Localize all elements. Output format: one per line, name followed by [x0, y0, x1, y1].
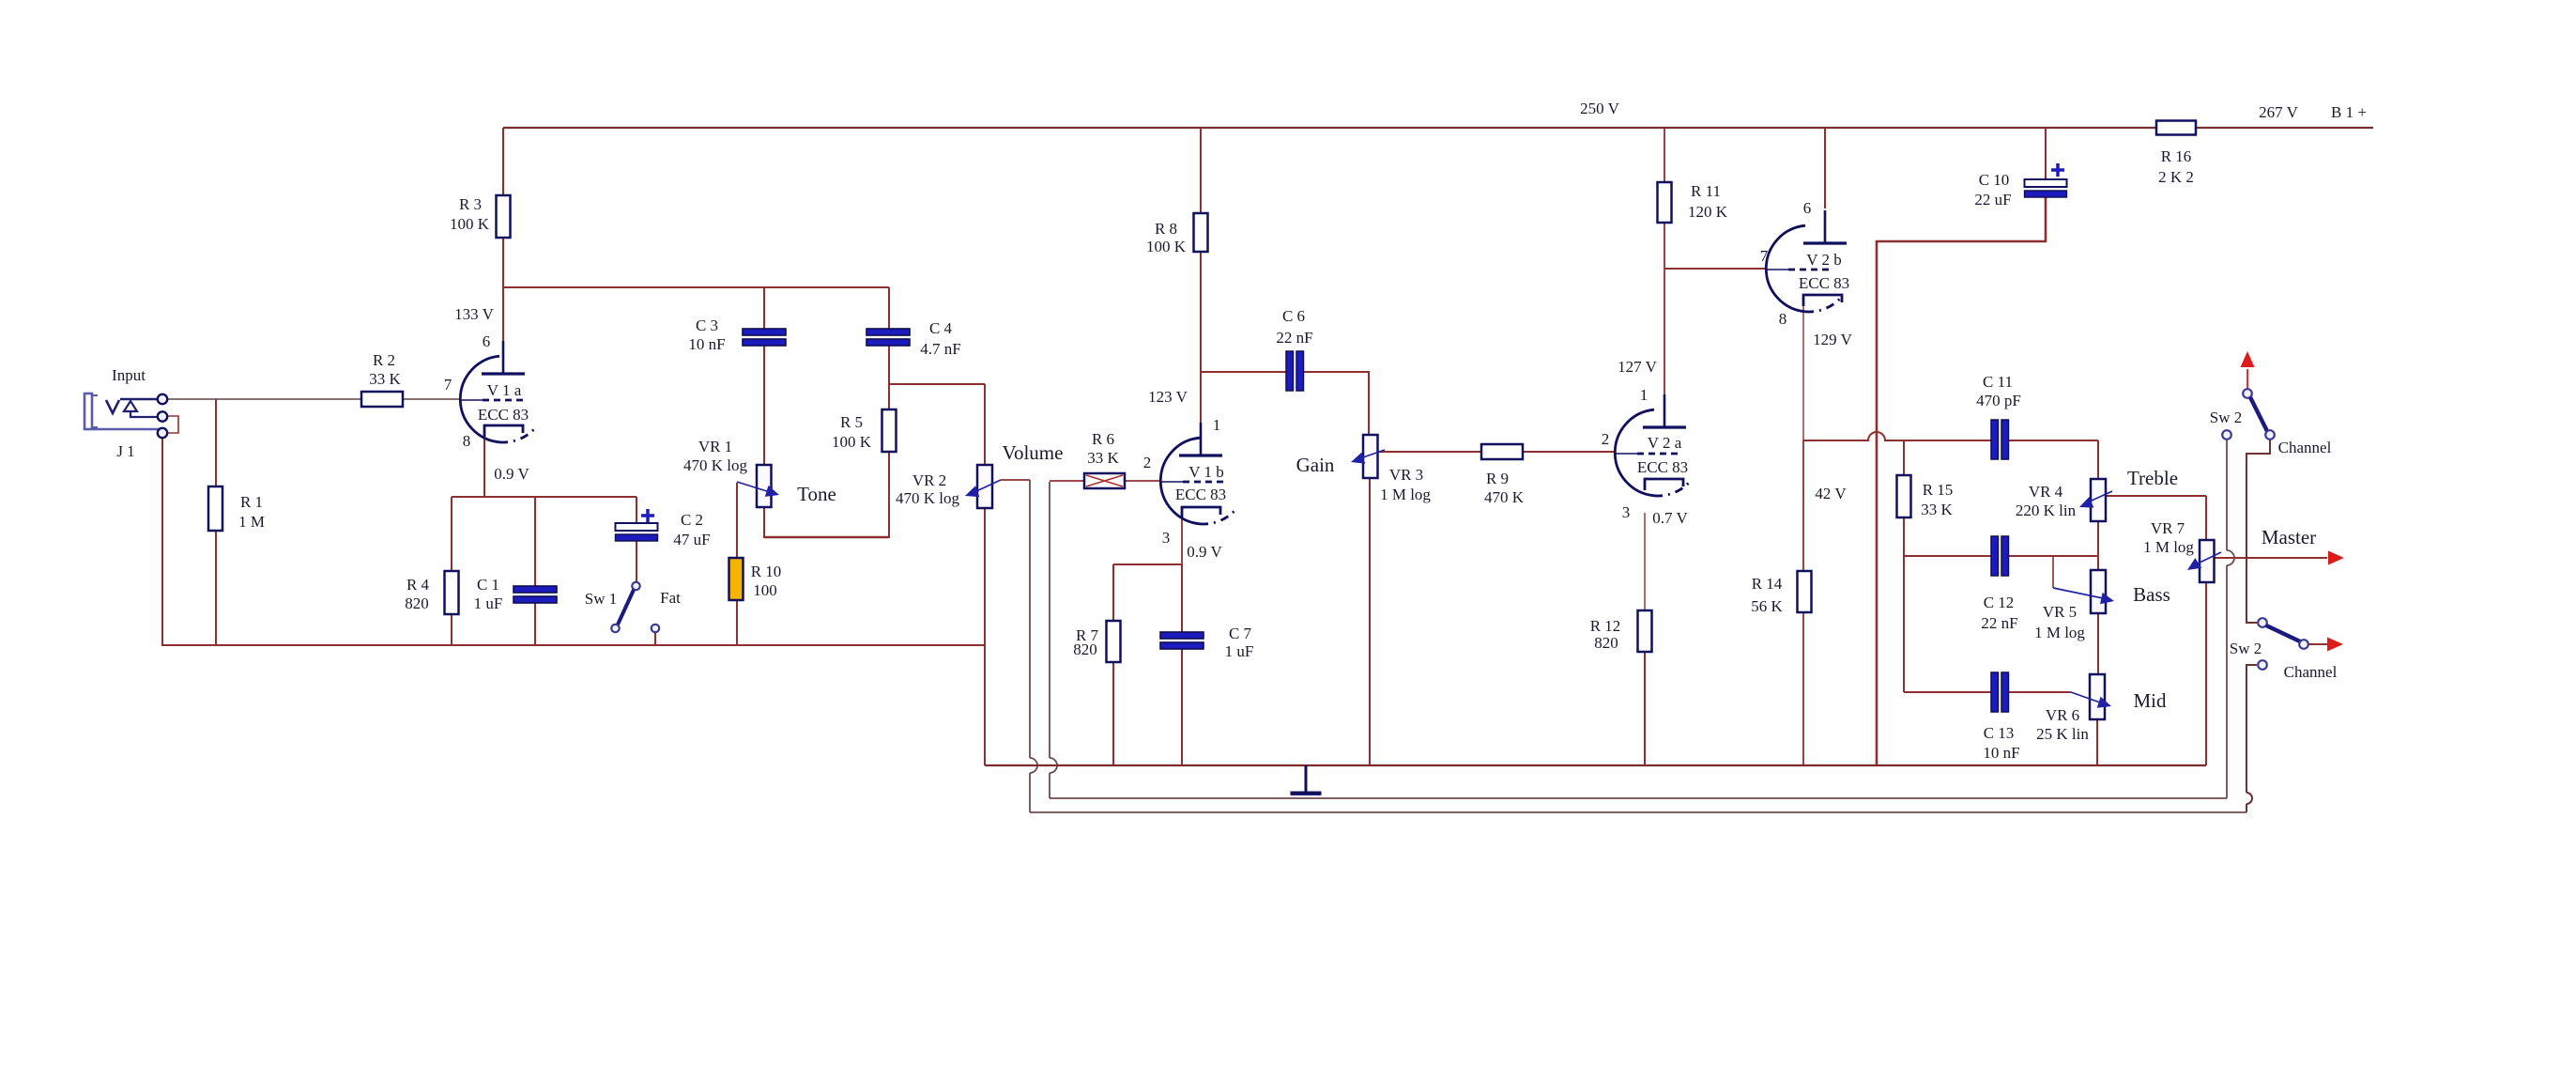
wire: volume wiper drop	[1029, 480, 1031, 758]
wire: VR7 bottom to bus	[2205, 581, 2207, 765]
arrow: master output	[2328, 551, 2344, 565]
svg-text:C 13: C 13	[1984, 724, 2015, 742]
resistor R8	[1194, 213, 1208, 252]
wire: cathode node rail	[452, 496, 636, 498]
terminal J1 tip	[158, 394, 167, 404]
svg-text:7: 7	[444, 376, 452, 394]
svg-text:C 10: C 10	[1979, 171, 2010, 189]
wire: R1 to ground rail	[215, 530, 217, 646]
svg-text:R 10: R 10	[751, 563, 782, 580]
svg-text:6: 6	[483, 332, 491, 350]
wire: left ground rail	[161, 644, 985, 646]
wire: 133V node to C3/C4 rail	[502, 286, 889, 288]
svg-text:100 K: 100 K	[832, 433, 872, 451]
svg-text:10 nF: 10 nF	[688, 335, 725, 353]
wire: bus3 volume-to-channel	[1030, 811, 2246, 813]
svg-text:Sw 1: Sw 1	[585, 590, 617, 608]
wire: rail down to R11	[1664, 128, 1665, 182]
svg-text:R 15: R 15	[1923, 481, 1954, 499]
svg-text:8: 8	[463, 432, 471, 450]
wire: junction down to R1	[215, 399, 217, 487]
wire: channel link upper to lower	[2246, 440, 2270, 623]
svg-text:470 K log: 470 K log	[683, 456, 748, 474]
svg-text:2 K 2: 2 K 2	[2158, 168, 2194, 186]
switch Sw2 upper pole	[2243, 389, 2252, 398]
svg-text:1: 1	[1640, 386, 1648, 404]
svg-text:VR 4: VR 4	[2029, 483, 2063, 501]
wire: node to C7	[1181, 564, 1183, 633]
resistor R4	[445, 571, 459, 614]
wire: R8 to 123V node	[1200, 251, 1202, 372]
svg-text:6: 6	[1803, 199, 1812, 217]
svg-text:250 V: 250 V	[1580, 100, 1619, 117]
svg-text:V 1 b: V 1 b	[1188, 463, 1223, 481]
wire: C1 to ground rail	[534, 600, 536, 646]
svg-text:VR 1: VR 1	[698, 438, 732, 455]
wire: R9 to V2a grid	[1522, 451, 1616, 453]
svg-text:1 M log: 1 M log	[2143, 538, 2194, 556]
polarity + C2	[641, 514, 654, 517]
svg-text:Master: Master	[2262, 526, 2316, 548]
capacitor C7	[1160, 632, 1204, 639]
potentiometer VR4	[2091, 479, 2106, 521]
svg-text:R 11: R 11	[1691, 182, 1721, 200]
svg-text:47 uF: 47 uF	[673, 531, 710, 548]
wire: 133V node to V1a anode	[502, 287, 504, 342]
wire: master output	[2214, 557, 2327, 559]
capacitor C3	[743, 329, 786, 335]
svg-text:R 3: R 3	[459, 195, 482, 213]
svg-text:R 9: R 9	[1486, 470, 1509, 487]
wire: VR3 wiper to R9	[1377, 451, 1481, 453]
svg-text:120 K: 120 K	[1688, 203, 1728, 221]
svg-text:100 K: 100 K	[1146, 238, 1187, 255]
potentiometer VR1	[757, 465, 772, 507]
wire: 123V node to V1b anode	[1200, 372, 1202, 440]
wire: R6 left drop	[1049, 482, 1050, 758]
wire: upper Sw2 pole drop	[2226, 440, 2228, 550]
svg-text:C 12: C 12	[1984, 594, 2015, 611]
wire: VR3 bottom to bus	[1369, 477, 1371, 765]
wire: C4 to volume node	[888, 345, 890, 385]
wire: lower channel stub to bus3	[2246, 665, 2257, 793]
wiper arrow VR2	[976, 480, 1001, 491]
wire: R14 to bus	[1802, 611, 1804, 765]
wire: VR2 wiper lead	[1001, 479, 1030, 481]
switch Sw1 throw	[611, 625, 619, 632]
wire: R7 to bus	[1112, 661, 1114, 765]
capacitor C1	[514, 586, 557, 593]
svg-text:2: 2	[1143, 454, 1152, 471]
capacitor C12	[1991, 536, 1999, 576]
wire: node to C2	[636, 497, 637, 524]
resistor R11	[1658, 182, 1672, 223]
svg-text:VR 5: VR 5	[2043, 603, 2077, 621]
wire: C12 node to VR5 top	[2097, 556, 2099, 571]
potentiometer VR3	[1363, 435, 1378, 478]
capacitor C4	[866, 329, 910, 335]
svg-text:V 1 a: V 1 a	[487, 381, 522, 399]
potentiometer VR7	[2200, 540, 2215, 582]
wire: B+ 250V top rail	[503, 127, 2156, 129]
svg-text:C 11: C 11	[1983, 373, 2013, 391]
svg-text:133 V: 133 V	[454, 305, 494, 323]
wire: C12 line right	[2009, 555, 2098, 557]
svg-text:1 uF: 1 uF	[1225, 642, 1254, 660]
triode V1b	[1160, 438, 1200, 524]
wire: cathode node to R7	[1113, 563, 1182, 565]
potentiometer VR5	[2091, 570, 2106, 613]
wire: VR5 bottom to VR6 top	[2097, 612, 2099, 675]
resistor R15	[1897, 475, 1911, 517]
svg-text:820: 820	[1594, 634, 1618, 652]
wire: VR1 wiper to R10	[736, 483, 738, 559]
switch Sw2 lower NC contact	[2258, 660, 2267, 670]
svg-text:33 K: 33 K	[1087, 449, 1119, 467]
wire: R15 top stub	[1903, 440, 1905, 475]
wire: VR5 wiper stub	[2052, 556, 2054, 588]
svg-text:R 6: R 6	[1092, 430, 1114, 448]
svg-text:R 1: R 1	[240, 493, 263, 511]
svg-text:56 K: 56 K	[1751, 597, 1783, 615]
svg-text:R 16: R 16	[2161, 147, 2192, 165]
svg-text:1 uF: 1 uF	[474, 594, 503, 612]
wire: node down to V2a anode (127V)	[1664, 269, 1665, 428]
wire: VR1 bottom	[763, 507, 765, 538]
svg-text:22 nF: 22 nF	[1981, 614, 2017, 632]
wiper arrow VR3	[1363, 450, 1385, 457]
wire: C13 line to VR6 wiper	[2009, 691, 2071, 693]
wiper arrow VR1	[737, 482, 770, 492]
switch Sw2 lower lever	[2266, 625, 2300, 641]
svg-text:V 2 a: V 2 a	[1648, 434, 1682, 452]
svg-text:Treble: Treble	[2127, 467, 2178, 489]
svg-text:R 5: R 5	[840, 413, 863, 431]
svg-text:Gain: Gain	[1296, 454, 1335, 476]
wiper arrow VR4	[2092, 491, 2112, 501]
switch Sw2 lower pole	[2258, 618, 2267, 627]
svg-text:Sw 2: Sw 2	[2210, 409, 2242, 426]
svg-text:C 4: C 4	[929, 319, 953, 337]
svg-text:ECC 83: ECC 83	[478, 406, 529, 424]
arrow: channel B output	[2327, 638, 2343, 652]
terminal J1 ring	[158, 411, 167, 421]
svg-text:VR 2: VR 2	[912, 471, 946, 489]
wire: node to C1	[534, 497, 536, 587]
switch Sw2 lower throw	[2299, 640, 2308, 649]
wire: VR4 bottom to C12 node	[2097, 521, 2099, 556]
resistor R14	[1798, 571, 1812, 612]
svg-text:Tone: Tone	[797, 483, 836, 505]
svg-text:C 1: C 1	[477, 576, 499, 594]
wire: VR6 bottom to bus	[2096, 718, 2098, 765]
svg-text:1 M: 1 M	[238, 513, 265, 531]
svg-text:820: 820	[405, 594, 429, 612]
wire: C12 line left	[1904, 555, 1991, 557]
connector J1 input jack	[84, 394, 92, 429]
svg-text:VR 6: VR 6	[2046, 706, 2079, 724]
wire: R11 to node	[1664, 222, 1665, 269]
svg-text:J 1: J 1	[116, 442, 134, 460]
wire: rail down to R3	[502, 128, 504, 195]
svg-text:267 V: 267 V	[2259, 103, 2298, 121]
ground	[1305, 765, 1308, 792]
svg-text:100: 100	[753, 581, 777, 599]
triode V1a	[460, 356, 499, 442]
svg-text:Channel: Channel	[2278, 439, 2332, 456]
switch Sw1 lever	[618, 590, 634, 625]
wire: ground bus	[985, 764, 2206, 766]
wire: node to R5 top	[888, 384, 890, 410]
wire: Fat terminal stub	[654, 632, 656, 646]
svg-text:C 3: C 3	[696, 316, 718, 334]
wire: jack ring-sleeve bracket	[167, 416, 178, 433]
wire: R12 to bus	[1644, 651, 1646, 765]
wire: C13 line left	[1904, 691, 1991, 693]
svg-text:Input: Input	[112, 366, 146, 384]
resistor R5	[882, 409, 897, 452]
svg-text:Mid: Mid	[2133, 689, 2167, 712]
svg-text:2: 2	[1602, 430, 1610, 448]
wire: C7 to bus	[1181, 649, 1183, 765]
triode V2b	[1766, 225, 1805, 312]
svg-text:4.7 nF: 4.7 nF	[920, 340, 960, 358]
svg-text:127 V: 127 V	[1618, 358, 1657, 376]
svg-text:R 12: R 12	[1590, 617, 1621, 635]
triode V2a	[1615, 409, 1654, 496]
svg-text:R 14: R 14	[1752, 575, 1783, 593]
svg-text:10 nF: 10 nF	[1983, 744, 2019, 762]
wire: C10 to anode feed loop	[1877, 197, 2046, 765]
svg-text:470 K: 470 K	[1484, 488, 1525, 506]
svg-text:R 8: R 8	[1155, 220, 1177, 238]
svg-text:8: 8	[1779, 310, 1787, 328]
capacitor C2 electrolytic	[616, 523, 658, 531]
svg-text:129 V: 129 V	[1813, 331, 1852, 348]
svg-text:820: 820	[1073, 641, 1097, 658]
wire: V1a cathode to node	[483, 430, 485, 497]
wire: upper Sw2 arrow stem	[2246, 369, 2248, 390]
svg-text:0.9 V: 0.9 V	[494, 465, 529, 483]
wire: riser down to VR3	[1368, 372, 1370, 436]
svg-text:Volume: Volume	[1003, 441, 1064, 464]
wire: R3 to 133V node	[502, 238, 504, 288]
switch Sw2 upper throw	[2265, 430, 2275, 440]
resistor R1	[208, 486, 222, 531]
wire: treble line to VR7	[2106, 495, 2206, 497]
resistor R10	[729, 558, 744, 600]
wiper arrow VR5	[2053, 588, 2103, 598]
svg-text:22 nF: 22 nF	[1276, 329, 1312, 347]
wire: C3 to VR1 top	[763, 345, 765, 466]
svg-text:C 6: C 6	[1282, 307, 1305, 325]
svg-text:123 V: 123 V	[1148, 388, 1188, 406]
wire: C6 to VR3 riser	[1302, 371, 1370, 373]
switch Sw2 upper NC contact	[2222, 430, 2231, 440]
wire: R2 to V1a grid	[403, 398, 461, 400]
svg-text:0.9 V: 0.9 V	[1187, 543, 1222, 561]
svg-text:V 2 b: V 2 b	[1806, 251, 1841, 269]
wire: C4 branch down	[888, 287, 890, 330]
svg-text:33 K: 33 K	[1921, 501, 1953, 518]
svg-text:B 1 +: B 1 +	[2331, 103, 2367, 121]
svg-text:R 4: R 4	[406, 576, 430, 594]
wire: input tip to R2 grid wire	[167, 398, 361, 400]
svg-text:1 M log: 1 M log	[2034, 624, 2085, 641]
wire: volume node to VR2 top	[889, 383, 985, 385]
wire: C11 line to VR4	[2009, 440, 2098, 441]
potentiometer VR6	[2090, 674, 2105, 719]
svg-text:1: 1	[1213, 416, 1221, 434]
wire: 42V down to R14	[1802, 440, 1804, 572]
wire: R5 bottom to tone bottom	[888, 451, 890, 538]
svg-text:470 K log: 470 K log	[896, 489, 960, 507]
wire: bus2 grid-to-channel	[1050, 797, 2227, 799]
wire: V1b cathode down	[1181, 515, 1183, 564]
wiper arrow VR7	[2198, 552, 2221, 563]
resistor R6 (hatched)	[1084, 473, 1125, 488]
resistor R3	[497, 195, 511, 238]
switch Sw2 upper lever	[2250, 397, 2267, 431]
capacitor C13	[1991, 672, 1999, 712]
svg-text:Bass: Bass	[2133, 583, 2170, 606]
resistor R9	[1481, 444, 1523, 459]
wire: tone bottom rail	[764, 536, 889, 538]
resistor R2	[361, 392, 403, 407]
svg-text:25 K lin: 25 K lin	[2036, 725, 2089, 743]
resistor R16	[2156, 121, 2196, 135]
svg-text:Fat: Fat	[660, 589, 681, 607]
svg-text:Channel: Channel	[2284, 663, 2338, 681]
wire: rail down to V2b anode	[1824, 128, 1826, 208]
potentiometer VR2	[977, 465, 992, 508]
resistor R7	[1107, 621, 1121, 662]
wire: V2a cathode down	[1644, 513, 1646, 611]
wire: V2b cathode down (129V)	[1802, 306, 1804, 440]
svg-text:22 uF: 22 uF	[1974, 191, 2011, 208]
wire: left riser C12-C13	[1903, 556, 1905, 692]
polarity + C10	[2051, 168, 2064, 172]
wire: rail down to C10	[2045, 128, 2047, 180]
svg-text:C 7: C 7	[1229, 625, 1252, 642]
svg-text:1 M log: 1 M log	[1380, 486, 1431, 503]
switch Sw1 pole	[632, 582, 639, 590]
svg-text:ECC 83: ECC 83	[1637, 458, 1688, 476]
capacitor C10 electrolytic	[2025, 179, 2067, 187]
wire: C3 branch down	[763, 287, 765, 330]
wire: VR2 bottom to bus	[984, 508, 986, 765]
wire: R6 left lead	[1050, 480, 1084, 482]
wire: R6 to V1b grid	[1125, 480, 1161, 482]
svg-text:470 pF: 470 pF	[1976, 392, 2021, 409]
resistor R12	[1638, 610, 1652, 652]
wire: 42V line to R15	[1803, 440, 1869, 441]
svg-text:ECC 83: ECC 83	[1799, 274, 1849, 292]
svg-text:Sw 2: Sw 2	[2230, 640, 2262, 657]
svg-text:3: 3	[1622, 503, 1631, 521]
wire: lower Sw2 to output arrow	[2308, 643, 2327, 645]
svg-text:3: 3	[1162, 529, 1171, 547]
svg-text:ECC 83: ECC 83	[1175, 486, 1226, 503]
terminal J1 sleeve	[158, 428, 167, 438]
capacitor C11	[1991, 420, 1999, 459]
wire: jack sleeve down to ground rail	[161, 438, 163, 646]
wire: R15 bottom to C12 line	[1903, 517, 1905, 556]
wire: node to R4	[451, 497, 452, 572]
svg-text:R 2: R 2	[373, 351, 395, 369]
svg-text:33 K: 33 K	[369, 370, 401, 388]
wire: down to R7	[1112, 564, 1114, 622]
wire: 123V node to C6	[1201, 371, 1287, 373]
wire: R10 to ground rail	[736, 599, 738, 646]
hop: 42V line over anode feed	[1868, 432, 1885, 440]
svg-text:VR 3: VR 3	[1389, 466, 1423, 484]
svg-text:C 2: C 2	[681, 511, 703, 529]
svg-text:42 V: 42 V	[1815, 485, 1847, 502]
terminal Fat	[652, 625, 659, 632]
svg-text:VR 7: VR 7	[2151, 519, 2185, 537]
svg-text:0.7 V: 0.7 V	[1652, 509, 1688, 527]
wiper arrow VR6	[2071, 692, 2100, 702]
wire: R4 to ground rail	[451, 613, 452, 646]
wire: node to V2b grid	[1664, 268, 1767, 270]
wire: rail down to R8	[1200, 128, 1202, 213]
svg-text:100 K: 100 K	[450, 215, 490, 233]
wire: C2 to Sw1	[636, 541, 637, 582]
capacitor C6	[1286, 351, 1294, 391]
svg-text:7: 7	[1760, 247, 1769, 265]
svg-text:220 K lin: 220 K lin	[2016, 502, 2077, 519]
arrow: channel A output	[2241, 351, 2255, 367]
